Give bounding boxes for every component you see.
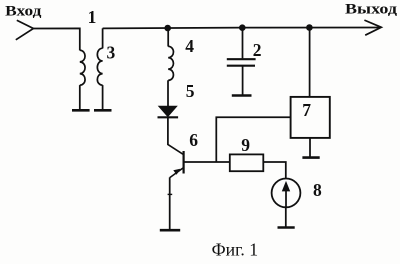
wire: diode to transistor collector (167, 117, 169, 145)
input terminal arrow (16, 20, 34, 40)
wire: emitter lead (169, 177, 171, 230)
diode 5 (158, 106, 179, 117)
wire: inductor to diode (167, 80, 169, 106)
wire: primary bottom lead (79, 85, 81, 110)
svg-text:9: 9 (241, 135, 250, 155)
junction tick on emitter lead (168, 193, 173, 195)
svg-text:3: 3 (107, 43, 116, 63)
ground: primary (72, 109, 90, 112)
wire: junction to inductor 4 (167, 28, 169, 47)
ground: secondary (94, 109, 112, 112)
svg-text:5: 5 (186, 81, 195, 101)
wire: junction to block 7 (309, 27, 311, 97)
node: junction at block 7 (306, 24, 313, 31)
resistor 9 (230, 154, 263, 171)
transistor 6 (168, 145, 183, 178)
node: junction at inductor 4 (164, 25, 171, 32)
wire: secondary top lead (102, 28, 104, 48)
svg-text:Выход: Выход (345, 1, 397, 17)
transformer 1: primary winding (80, 50, 85, 85)
wire: top bus from secondary to output (103, 27, 380, 30)
ground: current source (278, 226, 295, 229)
wire: capacitor bottom lead (242, 66, 244, 95)
svg-text:Фиг. 1: Фиг. 1 (212, 239, 259, 259)
wire: block 7 bottom lead (309, 138, 311, 157)
svg-text:1: 1 (88, 7, 97, 27)
wire: feedback riser to block 7 input (216, 117, 290, 162)
ground: capacitor (232, 94, 252, 97)
wire: current source bottom lead (285, 207, 287, 227)
current source 8 (272, 179, 301, 208)
capacitor 2 (227, 59, 256, 65)
inductor 4 (168, 46, 173, 80)
svg-text:6: 6 (189, 130, 198, 150)
wire: input to transformer primary (33, 28, 79, 50)
svg-text:Вход: Вход (5, 3, 42, 19)
block 7 (291, 97, 330, 138)
transformer 1: secondary winding 3 (97, 48, 102, 85)
wire: resistor to current source (263, 162, 286, 178)
svg-text:7: 7 (302, 100, 311, 120)
node: junction at capacitor 2 (239, 24, 246, 31)
wire: base to resistor 9 (184, 161, 230, 163)
svg-text:2: 2 (253, 40, 262, 60)
ground: block 7 (302, 156, 319, 159)
wire: junction to capacitor 2 (242, 28, 244, 59)
ground: emitter (160, 229, 180, 232)
output terminal arrow (364, 20, 381, 35)
wire: secondary bottom lead (102, 85, 104, 110)
svg-text:4: 4 (185, 36, 194, 56)
svg-text:8: 8 (313, 180, 322, 200)
